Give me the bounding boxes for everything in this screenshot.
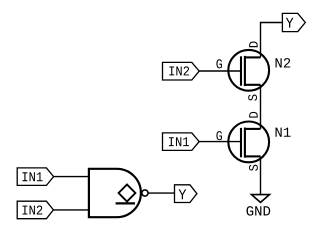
pin label S (N2) [248,95,257,101]
output label Y (nand) [175,185,197,203]
input label IN1 (nand) [17,168,53,186]
designator N2 [276,58,291,67]
transistor N2 [228,50,269,91]
pin label D (N1) [249,112,258,118]
net label GND [246,206,270,216]
pin label G (N2) [216,59,222,68]
ground [252,195,270,203]
nand gate body [89,168,141,219]
designator N1 [276,128,291,137]
pin label D (N2) [249,41,258,47]
wire bubble to Y [148,192,174,194]
transistor N1 [228,121,269,162]
wire IN1 to N1 gate [199,141,240,143]
output label Y (top right) [282,13,305,31]
wire N2 source to N1 drain [260,85,262,129]
pin label G (N1) [216,131,222,140]
input label IN2 (N2 gate) [163,62,200,80]
pin label S (N1) [249,165,258,171]
wire N1 source to ground [260,156,262,194]
wire IN2 to nand [53,209,88,211]
output bubble [142,190,148,196]
open-drain indicator bar [116,202,135,204]
open-drain indicator (diamond) [119,185,136,202]
input label IN2 (nand) [17,201,53,219]
wire Y to N2 drain [261,23,283,58]
wire IN2 to N2 gate [199,70,240,72]
input label IN1 (N1 gate) [163,133,200,151]
wire IN1 to nand [54,176,89,178]
